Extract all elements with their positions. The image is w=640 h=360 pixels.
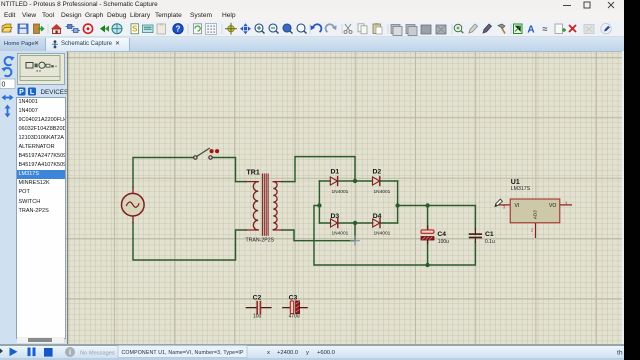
block icons (gray) — [391, 25, 400, 34]
component info panel — [118, 346, 247, 358]
svg-text:C1: C1 — [485, 231, 494, 238]
svg-text:D4: D4 — [373, 213, 382, 220]
separator — [452, 24, 453, 34]
svg-text:S: S — [132, 25, 138, 34]
magnifier edit — [454, 24, 462, 32]
toolbar — [0, 21, 624, 37]
pencil dark — [483, 24, 492, 33]
svg-text:1N4001: 1N4001 — [332, 189, 349, 195]
wire: D3 anode and cathode — [319, 222, 355, 224]
svg-text:ADJ: ADJ — [532, 210, 537, 219]
svg-text:VO: VO — [549, 203, 556, 209]
flip vertical — [5, 105, 11, 118]
svg-text:TR1: TR1 — [247, 170, 260, 177]
devices list horizontal scrollbar — [17, 337, 64, 343]
zoom area — [297, 24, 305, 32]
node: C4 bottom junction — [425, 263, 429, 267]
svg-text:A: A — [527, 25, 534, 36]
zoom all — [283, 24, 291, 32]
svg-text:470u: 470u — [289, 314, 300, 320]
message area — [65, 347, 75, 357]
angle box — [0, 79, 15, 89]
canvas grid — [66, 51, 622, 345]
teal globe — [112, 24, 122, 34]
separator — [342, 24, 343, 34]
svg-text:+2400.0: +2400.0 — [277, 350, 298, 356]
copy — [358, 24, 364, 32]
transformer TR1 — [246, 174, 282, 235]
wire: C4 bottom lead — [427, 240, 429, 265]
paste — [373, 24, 381, 34]
preview box — [17, 53, 65, 85]
svg-text:L: L — [30, 89, 35, 96]
switch SW1 — [194, 148, 219, 159]
separator — [48, 24, 49, 34]
red target — [83, 24, 92, 33]
flip horizontal — [2, 95, 14, 101]
origin — [228, 26, 234, 32]
pan — [240, 23, 251, 34]
wire: AC source top to switch left terminal — [133, 158, 194, 188]
svg-text:P: P — [19, 89, 24, 96]
wire cursor (pencil) at U1 VI pin — [495, 199, 502, 206]
pencil gray — [469, 24, 478, 33]
status bar — [0, 344, 624, 358]
AC source V1 (alternator) — [122, 188, 145, 223]
svg-text:1N4001: 1N4001 — [374, 189, 391, 195]
schematic drawing — [66, 51, 622, 345]
svg-text:TRAN-2P2S: TRAN-2P2S — [246, 237, 275, 243]
green plus doc — [555, 24, 563, 34]
diode D1 1N4001 — [330, 177, 337, 186]
floppy save — [18, 24, 28, 34]
2 blue parts — [68, 25, 73, 29]
title bar — [0, 0, 624, 11]
svg-text:D1: D1 — [331, 168, 340, 175]
faded block — [584, 25, 594, 34]
left panel — [0, 51, 66, 345]
node: junction D1-D2 — [353, 179, 357, 183]
teal list — [143, 25, 154, 33]
wire: negative output rail — [314, 206, 475, 266]
diode D2 1N4001 — [373, 177, 380, 186]
svg-text:0.1u: 0.1u — [485, 239, 495, 245]
wire: bridge left rail — [318, 181, 320, 223]
wire: bridge right rail — [397, 181, 399, 223]
svg-text:≈: ≈ — [543, 24, 548, 34]
node: C4 top junction — [425, 203, 429, 207]
svg-text:100u: 100u — [438, 239, 449, 245]
separator — [310, 24, 311, 34]
wire: D4 anode and cathode — [355, 222, 398, 224]
help sphere — [173, 24, 183, 34]
capacitor C2 10u — [246, 302, 271, 314]
separator — [388, 24, 389, 34]
left orientation toolbar icons — [0, 51, 16, 171]
diode D3 1N4001 — [331, 219, 338, 228]
menu bar — [0, 11, 624, 21]
scissors — [345, 24, 351, 31]
tiny LM317 preview — [26, 63, 33, 69]
svg-text:y: y — [306, 350, 309, 356]
red X — [569, 25, 576, 32]
svg-text:th: th — [617, 350, 623, 357]
rotate clockwise — [5, 57, 12, 65]
wire: switch right terminal to transformer primary top — [212, 158, 246, 182]
separator — [511, 24, 512, 34]
edit pencil round — [601, 24, 611, 34]
svg-text:C3: C3 — [289, 295, 298, 302]
svg-text:D3: D3 — [331, 213, 340, 220]
capacitor C3 470u (electrolytic) — [283, 301, 307, 314]
svg-text:U1: U1 — [511, 179, 520, 186]
window buttons — [550, 0, 624, 11]
separator — [188, 24, 189, 34]
svg-text:x: x — [267, 350, 270, 356]
export — [34, 24, 40, 34]
node: bridge right mid — [395, 203, 399, 207]
wire: D1 anode and cathode — [319, 180, 355, 182]
svg-text:i: i — [69, 348, 71, 357]
devices list — [16, 97, 66, 339]
wire: secondary top to bridge node A — [282, 157, 355, 182]
wire: positive output rail to C4 and C1 — [398, 206, 476, 230]
svg-text:COMPONENT U1, Name=VI, Number=: COMPONENT U1, Name=VI, Number=3, Type=IP — [122, 350, 245, 356]
open folder — [2, 24, 11, 32]
diode D4 1N4001 — [373, 219, 380, 228]
capacitor C1 0.1u — [470, 229, 482, 242]
wire: secondary bottom to bridge node B — [282, 223, 355, 241]
letterbox black band — [624, 0, 640, 360]
svg-text:VI: VI — [515, 203, 520, 209]
zoom in — [255, 24, 263, 32]
svg-text:C4: C4 — [437, 231, 446, 238]
green component — [514, 24, 523, 34]
svg-text:1N4001: 1N4001 — [332, 231, 349, 237]
home — [51, 24, 62, 29]
green arrows — [100, 25, 105, 32]
capacitor C4 100u (electrolytic) — [421, 226, 434, 244]
rotate anticlockwise — [5, 68, 12, 76]
canvas — [66, 51, 622, 345]
zoom out — [269, 24, 277, 32]
P L DEVICES — [16, 87, 68, 97]
regulator U1 LM317S — [498, 199, 572, 237]
wire: D2 anode and cathode — [355, 180, 398, 182]
separator — [222, 24, 223, 34]
hammer — [498, 24, 505, 28]
undo — [313, 24, 321, 32]
grid — [206, 24, 217, 35]
svg-text:1N4001: 1N4001 — [374, 231, 391, 237]
svg-text:0: 0 — [2, 82, 6, 89]
svg-text:DEVICES: DEVICES — [41, 89, 69, 96]
dollar doc — [131, 24, 139, 34]
redo — [326, 24, 334, 32]
sim controls — [0, 349, 3, 354]
svg-text:C2: C2 — [253, 295, 262, 302]
svg-text:No Messages: No Messages — [80, 350, 115, 356]
svg-text:D2: D2 — [373, 168, 382, 175]
crosshair marker at secondary-bottom junction — [351, 236, 360, 245]
wire: transformer primary bottom to AC source bottom — [133, 223, 246, 261]
svg-text:?: ? — [176, 25, 181, 34]
canvas top border — [66, 51, 622, 52]
canvas left border — [67, 51, 68, 345]
refresh page — [194, 24, 202, 34]
tab bar — [0, 37, 624, 51]
clipboard — [157, 24, 166, 34]
node: junction D3-D4 — [353, 221, 357, 225]
svg-text:LM317S: LM317S — [511, 186, 531, 192]
svg-text:10u: 10u — [253, 314, 262, 320]
node: bridge left mid — [317, 203, 321, 207]
wire: C4 top lead — [427, 206, 429, 230]
svg-text:+600.0: +600.0 — [317, 350, 335, 356]
